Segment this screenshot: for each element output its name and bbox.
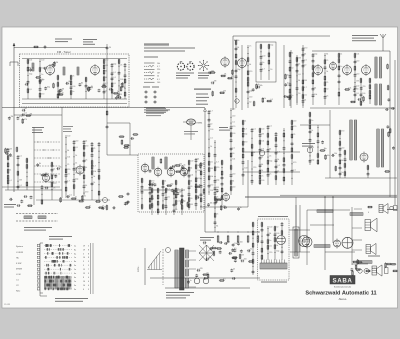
IF transformer T3 <box>350 120 352 160</box>
tube V12 <box>141 164 149 172</box>
tube socket diagram 2 <box>187 63 194 70</box>
wire <box>17 155 19 190</box>
capacitor <box>339 148 342 150</box>
svg-text:220: 220 <box>9 156 12 158</box>
resistor <box>291 148 293 152</box>
capacitor <box>98 89 101 91</box>
capacitor <box>24 195 26 198</box>
capacitor <box>331 154 333 157</box>
resistor <box>88 87 90 91</box>
capacitor <box>125 202 127 205</box>
svg-text:8k: 8k <box>341 160 343 162</box>
wire <box>14 47 107 49</box>
resistor <box>5 149 7 153</box>
resistor <box>387 65 389 69</box>
capacitor <box>141 186 144 188</box>
svg-text:1k: 1k <box>210 146 212 148</box>
svg-text:220: 220 <box>232 116 235 118</box>
wire <box>367 165 369 178</box>
svg-text:100: 100 <box>72 86 75 88</box>
wire <box>354 53 356 103</box>
switch row tag <box>37 260 40 262</box>
resistor <box>283 169 285 173</box>
wire <box>57 75 59 99</box>
resistor <box>59 94 63 96</box>
resistor <box>230 153 232 157</box>
svg-text:470: 470 <box>200 268 203 270</box>
socket caption <box>176 73 194 74</box>
svg-text:470: 470 <box>105 60 108 62</box>
junction <box>91 190 92 191</box>
junction <box>354 82 355 83</box>
wire <box>200 206 248 208</box>
capacitor <box>275 165 278 167</box>
capacitor <box>111 64 114 66</box>
resistor <box>228 77 232 79</box>
resistor <box>119 196 123 198</box>
decoder note <box>261 282 287 283</box>
resistor <box>239 255 241 259</box>
resistor <box>302 80 304 84</box>
potentiometer P4 <box>247 236 249 242</box>
phase splitter V18 <box>334 240 341 247</box>
IF can <box>152 157 154 169</box>
resistor <box>339 131 341 135</box>
legend symbol <box>144 62 149 64</box>
svg-text:220: 220 <box>232 187 235 189</box>
junction <box>91 177 92 178</box>
resistor <box>220 92 224 94</box>
junction <box>251 161 252 162</box>
wire <box>289 52 291 106</box>
junction <box>162 200 163 201</box>
svg-text:2n: 2n <box>89 205 91 207</box>
svg-text:15: 15 <box>83 269 85 271</box>
svg-text:0,1: 0,1 <box>304 59 307 61</box>
svg-text:1k: 1k <box>311 130 313 132</box>
resistor <box>200 171 202 175</box>
capacitor <box>36 163 39 165</box>
resistor <box>233 257 237 259</box>
capacitor <box>149 170 152 172</box>
wire <box>339 130 341 178</box>
svg-text:5k: 5k <box>104 206 106 208</box>
svg-text:470: 470 <box>85 146 88 148</box>
svg-text:5k: 5k <box>93 176 95 178</box>
svg-text:10k: 10k <box>190 174 193 176</box>
svg-text:10k: 10k <box>261 141 264 143</box>
svg-text:0,5: 0,5 <box>113 83 116 85</box>
svg-text:5k: 5k <box>276 245 278 247</box>
capacitor <box>291 142 294 144</box>
resistor <box>181 199 183 203</box>
resistor <box>338 66 340 70</box>
note text <box>352 35 378 36</box>
capacitor <box>9 198 11 201</box>
capacitor <box>230 126 233 128</box>
svg-text:100: 100 <box>261 180 264 182</box>
resistor <box>230 133 232 137</box>
capacitor <box>98 169 101 171</box>
capacitor <box>267 149 270 151</box>
resistor <box>83 167 85 171</box>
resistor <box>175 188 177 192</box>
svg-text:3: 3 <box>88 273 89 275</box>
junction <box>230 117 231 118</box>
resistor <box>51 163 53 167</box>
capacitor <box>195 203 198 205</box>
capacitor <box>176 192 179 194</box>
resistor <box>162 181 164 185</box>
svg-text:4,7: 4,7 <box>157 66 160 68</box>
capacitor <box>291 170 294 172</box>
contact block <box>44 276 46 290</box>
resistor <box>124 92 126 96</box>
woofer speaker <box>365 220 370 231</box>
junction <box>214 147 215 148</box>
switch row tag <box>37 252 40 254</box>
capacitor <box>288 97 291 99</box>
switch row tag <box>37 248 40 250</box>
svg-text:8k: 8k <box>291 53 293 55</box>
capacitor <box>59 89 62 91</box>
resistor <box>358 261 362 263</box>
svg-text:220V~: 220V~ <box>138 265 140 272</box>
svg-text:25: 25 <box>293 134 295 136</box>
resistor <box>221 171 223 175</box>
note text <box>302 143 315 144</box>
note text <box>55 39 72 40</box>
wire <box>205 231 260 233</box>
resistor <box>195 165 197 169</box>
capacitor <box>141 191 144 193</box>
svg-text:50: 50 <box>326 88 328 90</box>
junction <box>339 138 340 139</box>
resistor <box>251 145 253 149</box>
resistor <box>83 146 85 150</box>
svg-text:100: 100 <box>262 56 265 58</box>
capacitor <box>208 185 211 187</box>
resistor <box>188 181 190 185</box>
capacitor <box>83 185 86 187</box>
resistor <box>17 172 19 176</box>
potentiometer P5 <box>257 236 259 242</box>
resistor <box>207 274 209 278</box>
resistor <box>103 77 105 81</box>
note text <box>63 125 73 128</box>
resistor <box>345 89 349 91</box>
capacitor <box>354 86 357 88</box>
resistor <box>200 198 202 202</box>
resistor <box>118 60 120 64</box>
capacitor <box>221 183 224 185</box>
resistor <box>267 141 269 145</box>
resistor <box>39 80 41 84</box>
wire <box>103 59 105 99</box>
capacitor <box>106 46 109 48</box>
switch row tag <box>37 268 40 270</box>
junction <box>296 75 297 76</box>
legend symbol <box>144 72 149 74</box>
wire <box>312 53 314 105</box>
switch contact row <box>44 264 72 266</box>
junction <box>65 165 66 166</box>
capacitor <box>41 186 44 188</box>
svg-text:4,7: 4,7 <box>277 151 280 153</box>
capacitor <box>73 179 76 181</box>
resistor <box>195 189 197 193</box>
capacitor <box>267 174 270 176</box>
svg-text:0,1: 0,1 <box>84 196 87 198</box>
resistor <box>344 172 346 176</box>
wire <box>309 112 311 165</box>
capacitor <box>224 206 226 209</box>
junction <box>124 70 125 71</box>
capacitor <box>89 87 92 89</box>
svg-text:4,7: 4,7 <box>93 165 96 167</box>
svg-text:8k: 8k <box>91 86 93 88</box>
legend symbol <box>144 81 149 83</box>
resistor <box>233 257 237 259</box>
svg-text:220: 220 <box>362 86 365 88</box>
junction <box>73 174 74 175</box>
IF can <box>165 157 167 169</box>
crossover resistor <box>317 210 333 213</box>
svg-text:10k: 10k <box>157 63 160 65</box>
svg-text:10k: 10k <box>93 171 96 173</box>
resistor <box>175 194 177 198</box>
resistor <box>335 167 337 171</box>
junction <box>247 103 248 104</box>
svg-text:0,5: 0,5 <box>356 93 359 95</box>
capacitor <box>183 172 185 175</box>
resistor <box>73 185 75 189</box>
resistor <box>103 60 105 64</box>
svg-text:470: 470 <box>41 93 44 95</box>
svg-text:8k: 8k <box>197 159 199 161</box>
capacitor <box>171 189 174 191</box>
resistor <box>324 82 326 86</box>
wire <box>73 140 75 196</box>
svg-text:220: 220 <box>249 71 252 73</box>
wire <box>26 158 28 190</box>
secondary winding 3 <box>186 269 189 276</box>
svg-text:470: 470 <box>210 184 213 186</box>
svg-text:10k: 10k <box>327 155 330 157</box>
footnote <box>55 298 88 299</box>
connector strip <box>260 263 287 269</box>
svg-text:100: 100 <box>210 129 213 131</box>
capacitor <box>231 249 234 251</box>
resistor <box>235 61 237 65</box>
capacitor <box>9 153 12 155</box>
resistor <box>324 60 326 64</box>
svg-text:2n: 2n <box>269 240 271 242</box>
junction <box>247 98 248 99</box>
resistor <box>256 85 258 89</box>
capacitor <box>187 281 190 283</box>
capacitor <box>275 133 278 135</box>
dipole symbol <box>10 61 18 63</box>
svg-text:1k: 1k <box>102 206 104 208</box>
capacitor <box>181 194 184 196</box>
resistor <box>176 165 180 167</box>
resistor <box>309 125 311 129</box>
capacitor <box>344 158 347 160</box>
svg-text:0,5: 0,5 <box>210 162 213 164</box>
resistor <box>259 141 261 145</box>
capacitor <box>25 83 27 86</box>
resistor <box>296 58 298 62</box>
resistor <box>187 203 189 207</box>
svg-text:1k: 1k <box>85 167 87 169</box>
arrow node <box>204 108 207 111</box>
resistor <box>215 199 217 203</box>
capacitor <box>39 80 41 83</box>
resistor <box>221 75 225 77</box>
capacitor <box>274 233 277 235</box>
resistor <box>268 60 270 64</box>
resistor <box>214 214 216 218</box>
capacitor <box>127 192 130 194</box>
resistor <box>65 169 67 173</box>
capacitor <box>188 193 191 195</box>
capacitor <box>79 83 82 85</box>
wire <box>324 53 326 105</box>
switch contact row <box>44 248 72 250</box>
table title <box>49 236 72 237</box>
resistor <box>242 154 244 158</box>
ferrite caption <box>24 227 52 228</box>
wire <box>14 114 62 116</box>
connector pins <box>261 260 263 264</box>
junction <box>317 147 318 148</box>
small tube <box>307 147 313 153</box>
junction <box>83 193 84 194</box>
junction <box>65 144 66 145</box>
capacitor <box>195 159 198 161</box>
svg-text:100: 100 <box>261 129 264 131</box>
junction <box>283 153 284 154</box>
wire <box>2 186 60 188</box>
capacitor <box>188 186 191 188</box>
capacitor <box>208 71 210 74</box>
svg-text:220: 220 <box>222 206 225 208</box>
svg-text:0,1: 0,1 <box>269 126 272 128</box>
capacitor <box>259 134 262 136</box>
capacitor <box>283 164 286 166</box>
resistor <box>289 53 291 57</box>
svg-text:8k: 8k <box>269 233 271 235</box>
switch contact row <box>34 149 60 151</box>
wire <box>144 248 146 285</box>
wire <box>247 160 249 207</box>
resistor <box>259 129 261 133</box>
junction <box>230 160 231 161</box>
capacitor <box>275 144 278 146</box>
svg-text:L LW: L LW <box>16 274 21 276</box>
capacitor <box>208 111 211 113</box>
svg-text:FM - Tuner: FM - Tuner <box>57 50 71 54</box>
resistor <box>39 93 41 97</box>
capacitor <box>392 147 395 149</box>
resistor <box>36 77 40 79</box>
svg-text:2n: 2n <box>249 46 251 48</box>
capacitor <box>234 259 237 261</box>
resistor <box>325 155 327 159</box>
capacitor <box>27 81 30 83</box>
wire <box>5 189 62 191</box>
capacitor <box>17 163 20 165</box>
switch contact row <box>44 245 72 247</box>
wire <box>389 51 391 197</box>
resistor <box>176 171 180 173</box>
junction <box>214 163 215 164</box>
resistor <box>7 156 9 160</box>
capacitor <box>207 203 210 205</box>
svg-text:8k: 8k <box>237 47 239 49</box>
switch row tag <box>37 244 40 246</box>
capacitor <box>124 202 127 204</box>
wire <box>151 188 153 215</box>
resistor <box>141 179 143 183</box>
capacitor <box>232 243 235 245</box>
capacitor <box>302 60 305 62</box>
resistor <box>274 238 276 242</box>
wire <box>344 150 346 178</box>
svg-text:10k: 10k <box>232 158 235 160</box>
junction <box>208 130 209 131</box>
resistor <box>195 184 197 188</box>
resistor <box>283 158 285 162</box>
svg-text:7: 7 <box>88 269 89 271</box>
resistor <box>357 260 359 264</box>
legend symbol <box>144 68 149 70</box>
svg-text:470: 470 <box>24 119 27 121</box>
junction <box>251 168 252 169</box>
wire <box>306 210 308 265</box>
svg-text:100: 100 <box>269 227 272 229</box>
svg-text:0,5: 0,5 <box>269 246 272 248</box>
resistor <box>102 86 106 88</box>
svg-text:10k: 10k <box>179 163 182 165</box>
capacitor <box>22 109 24 112</box>
magic eye EM84 <box>187 119 196 125</box>
junction <box>247 53 248 54</box>
svg-text:25: 25 <box>72 76 74 78</box>
tube V2 EC92 <box>91 66 100 75</box>
resistor <box>181 201 183 205</box>
small tube <box>235 99 239 103</box>
resistor <box>360 79 362 83</box>
svg-text:470: 470 <box>53 183 56 185</box>
wire <box>124 63 126 99</box>
resistor <box>57 94 59 98</box>
capacitor <box>267 126 270 128</box>
resistor <box>103 70 105 74</box>
switch row tag <box>37 256 40 258</box>
svg-text:8k: 8k <box>69 81 71 83</box>
wire <box>300 124 330 126</box>
resistor <box>344 151 346 155</box>
resistor <box>39 68 41 72</box>
resistor <box>26 182 28 186</box>
svg-text:0,1: 0,1 <box>177 201 180 203</box>
capacitor <box>83 141 86 143</box>
svg-text:4,7: 4,7 <box>304 87 307 89</box>
subtitle text <box>144 48 195 49</box>
wire <box>281 222 283 260</box>
